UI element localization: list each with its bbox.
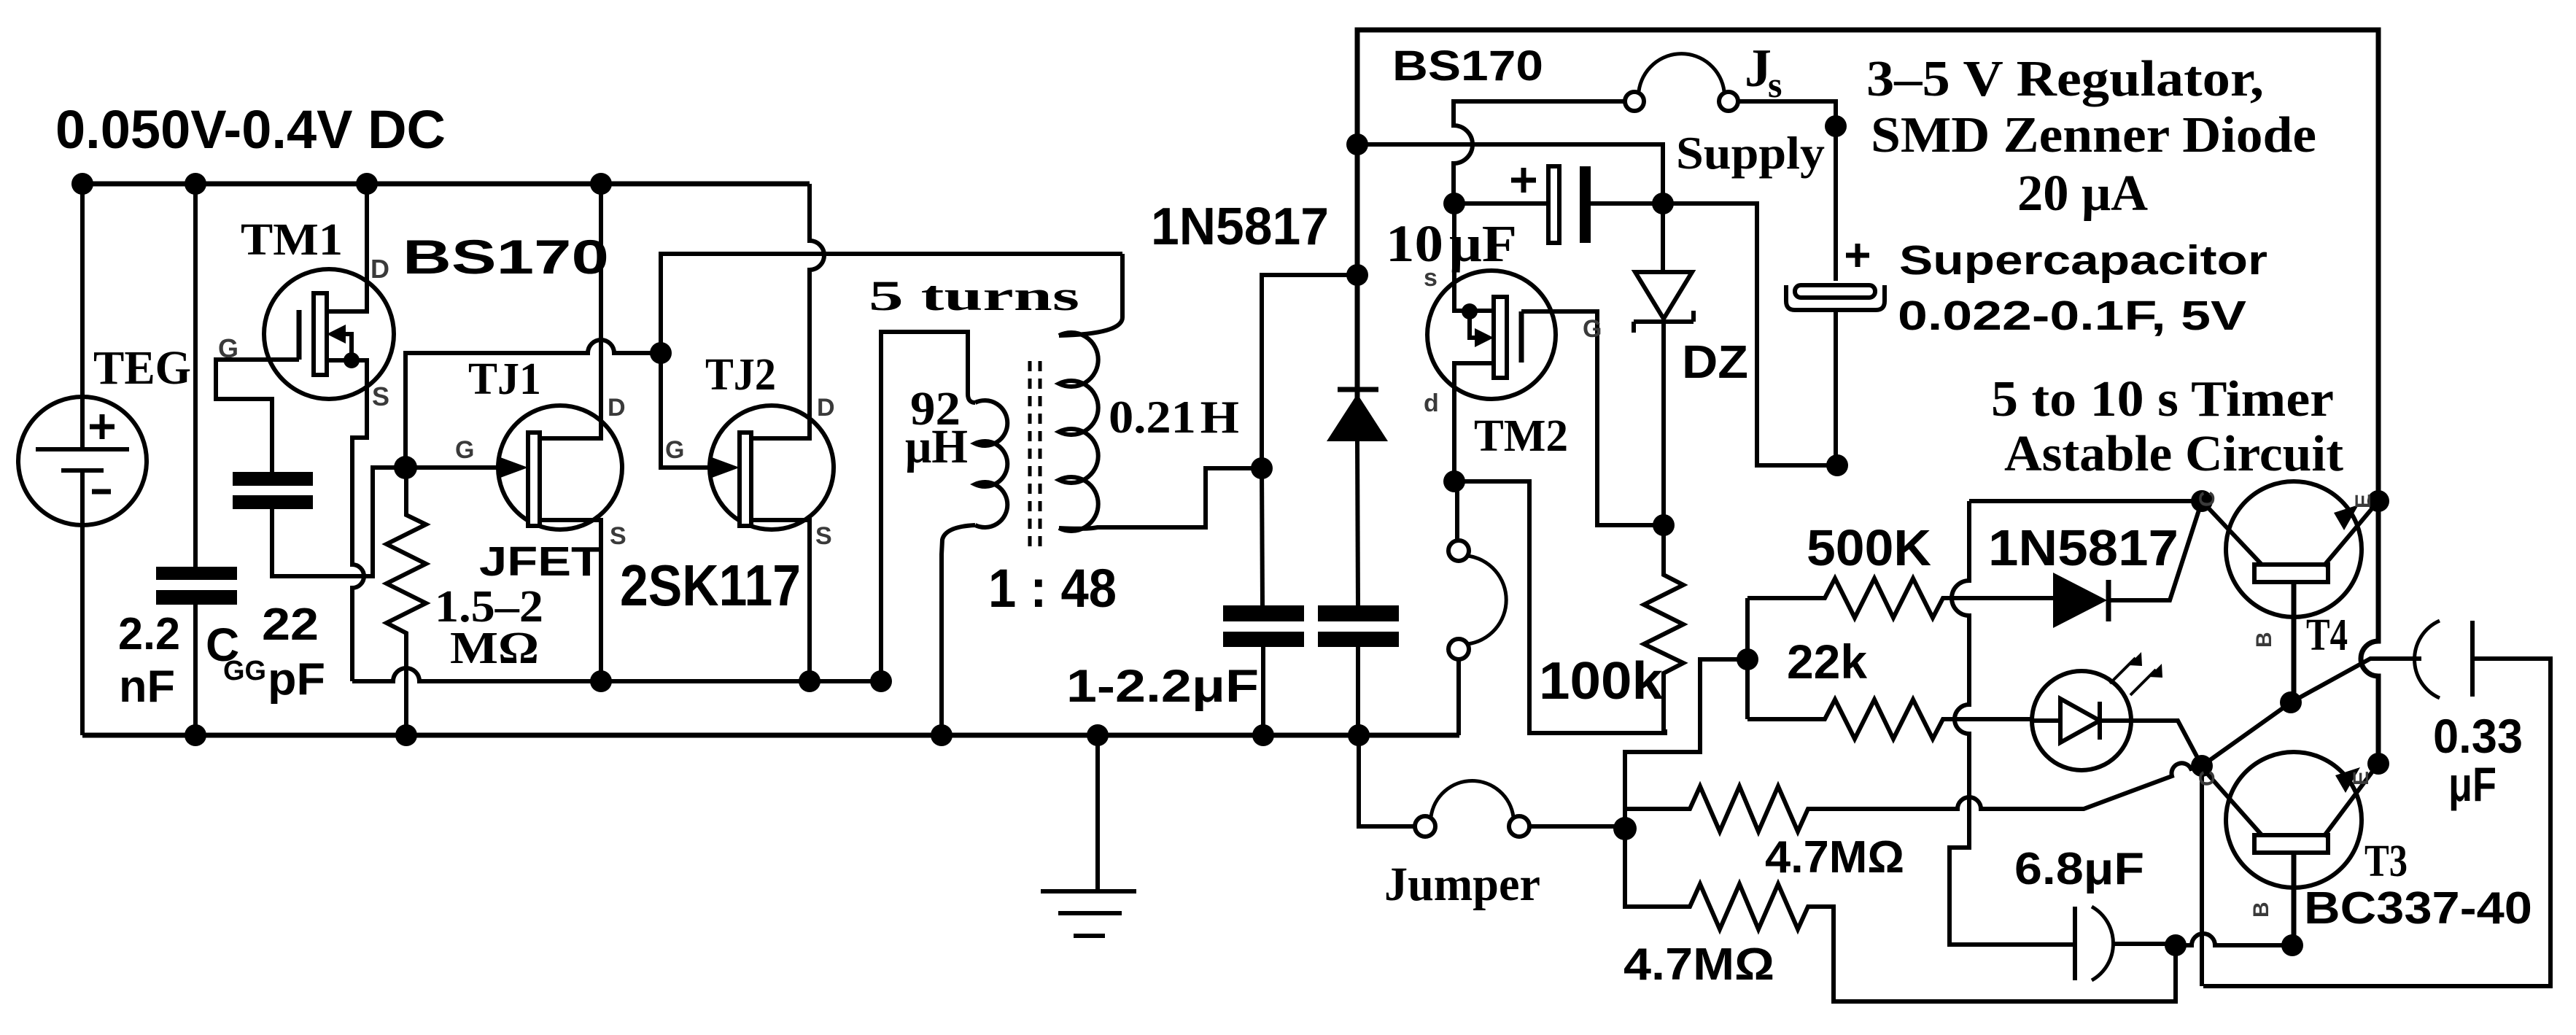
svg-text:2.2: 2.2 xyxy=(118,609,180,659)
pin E of T3 xyxy=(2349,771,2373,786)
capacitor 1-2.2uF second xyxy=(1318,441,1399,735)
wire 4.7M upper branch xyxy=(1625,763,2202,832)
label 500K xyxy=(1807,519,1931,576)
svg-text:D: D xyxy=(608,394,626,422)
jumper bottom Jumper xyxy=(1415,781,1529,837)
pin D of TJ1 xyxy=(608,394,626,422)
pin E of T4 xyxy=(2351,494,2375,508)
svg-text:5 turns: 5 turns xyxy=(869,272,1079,319)
label Jumper xyxy=(1384,858,1540,911)
pin C of T4 xyxy=(2195,491,2219,507)
label 3-5 V Regulator SMD Zenner Diode 20 uA xyxy=(1866,51,2316,222)
node top rail at TM1 drain xyxy=(356,173,378,195)
node ground rail at first cap xyxy=(1252,724,1274,746)
node T4 base xyxy=(2280,691,2302,713)
label 1 : 48 xyxy=(988,558,1117,619)
wire timer left vertical to 6.8uF xyxy=(1950,501,2073,945)
node ground rail at 2.2nF xyxy=(185,724,206,746)
jumper Js xyxy=(1625,54,1738,111)
node ground rail at ground symbol xyxy=(1087,724,1109,746)
node supercap bottom xyxy=(1826,454,1848,476)
wire supply rail hop over cap wire xyxy=(2361,501,2378,764)
svg-text:4.7MΩ: 4.7MΩ xyxy=(1623,939,1774,990)
capacitor 10uF polarized xyxy=(1454,166,1663,243)
label Supercapacitor 0.022-0.1F 5V xyxy=(1898,237,2267,339)
svg-text:G: G xyxy=(218,333,238,363)
transistor T3 BC337-40 xyxy=(2200,752,2378,945)
node T3 collector xyxy=(2191,755,2213,777)
inductor secondary 0.21H xyxy=(1059,254,1262,531)
svg-text:3–5 V Regulator,: 3–5 V Regulator, xyxy=(1866,51,2264,107)
pin D of TM1 xyxy=(371,254,389,284)
node T3 emitter on rail xyxy=(2367,753,2389,775)
node T4 collector xyxy=(2191,490,2213,512)
node T3 base xyxy=(2281,934,2303,956)
label T4 xyxy=(2306,610,2348,660)
node top rail at TJ1 drain xyxy=(590,173,612,195)
svg-text:20 μA: 20 μA xyxy=(2017,166,2148,222)
svg-text:pF: pF xyxy=(268,654,325,705)
label Js xyxy=(1745,39,1782,105)
svg-text:6.8μF: 6.8μF xyxy=(2014,844,2144,894)
svg-text:TM2: TM2 xyxy=(1474,411,1568,461)
pin C of T3 xyxy=(2195,770,2219,786)
svg-text:1-2.2μF: 1-2.2μF xyxy=(1066,661,1259,712)
pin G of TM1 xyxy=(218,333,238,363)
jumper TM2 drain xyxy=(1448,540,1506,735)
label 1N5817 main xyxy=(1151,198,1329,256)
node sources bus at TJ2 xyxy=(799,670,820,692)
svg-text:B: B xyxy=(2249,902,2273,918)
label 1-2.2uF xyxy=(1066,661,1259,712)
svg-text:T3: T3 xyxy=(2364,837,2408,886)
pin S of TM1 xyxy=(372,381,389,411)
svg-text:GG: GG xyxy=(223,656,266,686)
transistor TJ2 JFET 2SK117 xyxy=(661,184,834,681)
node ground rail at jumper leg xyxy=(1348,724,1370,746)
node ground rail at resistor xyxy=(395,724,417,746)
label BC337-40 xyxy=(2304,883,2532,934)
resistor 500K xyxy=(1747,578,2053,618)
svg-text:S: S xyxy=(372,381,389,411)
svg-text:G: G xyxy=(1583,315,1602,343)
svg-text:0.022-0.1F, 5V: 0.022-0.1F, 5V xyxy=(1898,292,2246,339)
label 0.21H xyxy=(1109,391,1239,443)
svg-text:SMD Zenner Diode: SMD Zenner Diode xyxy=(1871,107,2316,163)
label BS170 for TM1 xyxy=(403,230,609,284)
ground symbol xyxy=(1041,735,1136,936)
svg-text:D: D xyxy=(817,394,835,422)
svg-text:S: S xyxy=(610,522,626,550)
node diode cathode branch 198 xyxy=(1346,133,1368,155)
transistor TJ1 JFET 2SK117 xyxy=(406,184,622,681)
wire ground bottom rail xyxy=(82,733,1459,738)
pin s of TM2 xyxy=(1424,264,1438,292)
LED xyxy=(2032,652,2202,770)
label 2SK117 xyxy=(620,553,801,618)
resistor 22k xyxy=(1747,699,2032,739)
node 10uF right xyxy=(1652,193,1674,214)
wire jumper to timer divider node xyxy=(1529,824,1625,829)
resistor 100k xyxy=(1644,525,1683,733)
svg-text:BS170: BS170 xyxy=(403,230,609,284)
wire Js right leg to supply node xyxy=(1738,101,1836,281)
wire TM2 drain to 100k bottom xyxy=(1454,481,1665,733)
svg-text:JFET: JFET xyxy=(479,538,602,585)
pin B of T4 xyxy=(2252,632,2276,648)
svg-text:G: G xyxy=(455,436,474,464)
svg-text:2SK117: 2SK117 xyxy=(620,553,801,618)
wire ground to bottom Jumper xyxy=(1359,735,1415,826)
label 10 uF xyxy=(1386,214,1517,273)
svg-text:5 to 10 s Timer: 5 to 10 s Timer xyxy=(1991,371,2334,427)
label CGG 22pF xyxy=(206,600,325,705)
svg-text:D: D xyxy=(371,254,389,284)
svg-text:22k: 22k xyxy=(1787,635,1867,689)
label DZ xyxy=(1682,336,1748,388)
wire junction vertical xyxy=(1745,598,1750,719)
transistor TM1 BS170 MOSFET xyxy=(216,184,394,681)
svg-text:TJ1: TJ1 xyxy=(468,354,541,404)
label 92 uH xyxy=(905,382,968,473)
node 500K 22k left junction xyxy=(1737,648,1758,670)
wire cathode node to 10uF right node xyxy=(1357,144,1663,203)
pin d of TM2 xyxy=(1424,389,1439,417)
transistor T4 xyxy=(2202,481,2378,702)
node supply label point xyxy=(1825,115,1847,137)
diode D1 1N5817 xyxy=(1327,389,1388,441)
label TEG xyxy=(93,341,191,395)
label 0.050V-0.4V DC xyxy=(55,99,446,160)
pin S of TJ2 xyxy=(815,522,832,550)
label T3 xyxy=(2364,837,2408,886)
svg-text:0.050V-0.4V DC: 0.050V-0.4V DC xyxy=(55,99,446,160)
pin B of T3 xyxy=(2249,902,2273,918)
svg-text:500K: 500K xyxy=(1807,519,1931,576)
svg-text:1N5817: 1N5817 xyxy=(1988,519,2179,576)
svg-text:μF: μF xyxy=(1449,214,1517,273)
svg-text:G: G xyxy=(665,436,684,464)
wire supply riser and top routing xyxy=(1357,30,2378,501)
node zener bottom gate node xyxy=(1653,514,1675,536)
label JFET xyxy=(479,538,602,585)
svg-text:Supply: Supply xyxy=(1676,127,1825,179)
pin G of TJ1 xyxy=(455,436,474,464)
label 1N5817 timer xyxy=(1988,519,2179,576)
svg-text:22: 22 xyxy=(262,600,319,650)
wire T3 collector down to 0.33uF return xyxy=(2200,766,2204,986)
label TM1 xyxy=(241,215,343,265)
diode D2 1N5817 timer xyxy=(2053,501,2202,628)
svg-text:C: C xyxy=(2195,770,2219,786)
wire T4 base diagonal to 0.33uF xyxy=(2202,659,2421,766)
label TM2 xyxy=(1474,411,1568,461)
wire gates bus up to feedback line xyxy=(661,254,1122,353)
node top rail at 2.2nF xyxy=(185,173,206,195)
supercapacitor xyxy=(1786,244,1885,465)
wire Js left leg xyxy=(1454,101,1625,203)
capacitor 1-2.2uF first xyxy=(1223,468,1304,735)
label 2.2 nF xyxy=(118,609,180,712)
svg-text:E: E xyxy=(2351,494,2375,508)
svg-text:TEG: TEG xyxy=(93,341,191,395)
svg-text:Jumper: Jumper xyxy=(1384,858,1540,911)
svg-text:d: d xyxy=(1424,389,1439,417)
node TM2 drain xyxy=(1443,470,1465,492)
capacitor CGG 22pF xyxy=(233,468,406,576)
svg-text:TM1: TM1 xyxy=(241,215,343,265)
wire T4 collector rail xyxy=(1969,499,2202,503)
svg-text:Astable Circuit: Astable Circuit xyxy=(2004,426,2343,482)
svg-text:B: B xyxy=(2252,632,2276,648)
transformer core xyxy=(1030,361,1040,551)
svg-text:μH: μH xyxy=(905,420,968,473)
svg-text:E: E xyxy=(2349,771,2373,786)
svg-text:Supercapacitor: Supercapacitor xyxy=(1899,237,2267,284)
label BS170 top xyxy=(1392,42,1543,90)
wire top positive rail xyxy=(82,182,810,187)
node secondary bottom junction xyxy=(1251,457,1273,479)
wire sources bus xyxy=(352,668,881,681)
svg-text:0.33: 0.33 xyxy=(2433,709,2523,763)
svg-text:s: s xyxy=(1768,64,1782,105)
inductor primary 92uH xyxy=(942,394,1007,735)
svg-text:T4: T4 xyxy=(2306,610,2348,660)
TEG source xyxy=(18,184,147,735)
svg-text:BC337-40: BC337-40 xyxy=(2304,883,2532,934)
svg-text:1 : 48: 1 : 48 xyxy=(988,558,1117,619)
node gates bus at TJ2 xyxy=(650,342,672,364)
wire primary bracket 5 turns xyxy=(881,332,968,681)
svg-text:1N5817: 1N5817 xyxy=(1151,198,1329,256)
label TJ2 xyxy=(705,350,776,400)
svg-text:4.7MΩ: 4.7MΩ xyxy=(1765,832,1904,883)
pin G of TM2 xyxy=(1583,315,1602,343)
node sources bus at TJ1 xyxy=(590,670,612,692)
diode DZ zener xyxy=(1634,203,1694,525)
wire supercap bottom return xyxy=(1673,203,1837,465)
resistor 1.5-2 Mohm xyxy=(387,468,426,735)
svg-text:nF: nF xyxy=(119,662,175,712)
label 5 turns xyxy=(869,272,1079,319)
label TJ1 xyxy=(468,354,541,404)
svg-text:BS170: BS170 xyxy=(1392,42,1543,90)
node 6.8uF right xyxy=(2165,934,2187,956)
node ground rail at primary xyxy=(931,724,953,746)
label 6.8uF xyxy=(2014,844,2144,894)
label 0.33 uF xyxy=(2433,709,2523,811)
wire gate node to gates bus xyxy=(406,340,661,468)
node diode cathode branch 377 xyxy=(1346,264,1368,286)
svg-text:s: s xyxy=(1424,264,1438,292)
capacitor 0.33uF xyxy=(2203,621,2550,986)
svg-text:100k: 100k xyxy=(1539,652,1664,710)
svg-text:MΩ: MΩ xyxy=(450,624,539,673)
wire TM2 drain to jumper top xyxy=(1454,481,1457,540)
wire 6.8uF node to T3 base xyxy=(2176,934,2292,945)
pin D of TJ2 xyxy=(817,394,835,422)
capacitor 6.8uF xyxy=(2075,907,2176,980)
svg-text:TJ2: TJ2 xyxy=(705,350,776,400)
svg-text:DZ: DZ xyxy=(1682,336,1748,388)
label 5 to 10 s Timer Astable Circuit xyxy=(1991,371,2343,482)
pin G of TJ2 xyxy=(665,436,684,464)
label Supply xyxy=(1676,127,1825,179)
svg-text:S: S xyxy=(815,522,832,550)
node 10uF left xyxy=(1443,193,1465,214)
node ground rail at second cap and jumper leg xyxy=(1348,724,1370,746)
label 22k xyxy=(1787,635,1867,689)
pin S of TJ1 xyxy=(610,522,626,550)
label 4.7M upper xyxy=(1765,832,1904,883)
label 4.7M lower xyxy=(1623,939,1774,990)
svg-text:0.21 H: 0.21 H xyxy=(1109,391,1239,443)
node top rail at TEG xyxy=(71,173,93,195)
label 100k xyxy=(1539,652,1664,710)
wire secondary bottom to diode cathode node xyxy=(1262,275,1357,468)
svg-text:μF: μF xyxy=(2448,757,2497,811)
node timer divider node xyxy=(1613,817,1637,840)
node T4 emitter on rail xyxy=(2367,490,2389,512)
label 1.5-2 Mohm xyxy=(435,582,543,673)
svg-text:C: C xyxy=(2195,491,2219,507)
wire 4.7M lower branch xyxy=(1625,829,2176,1001)
wire divider node riser to 500K 22k junction xyxy=(1625,659,1747,829)
transistor TM2 BS170 MOSFET xyxy=(1427,203,1664,525)
node sources bus at primary xyxy=(870,670,892,692)
node TJ gate junction xyxy=(394,456,417,479)
capacitor 2.2nF xyxy=(156,184,237,735)
